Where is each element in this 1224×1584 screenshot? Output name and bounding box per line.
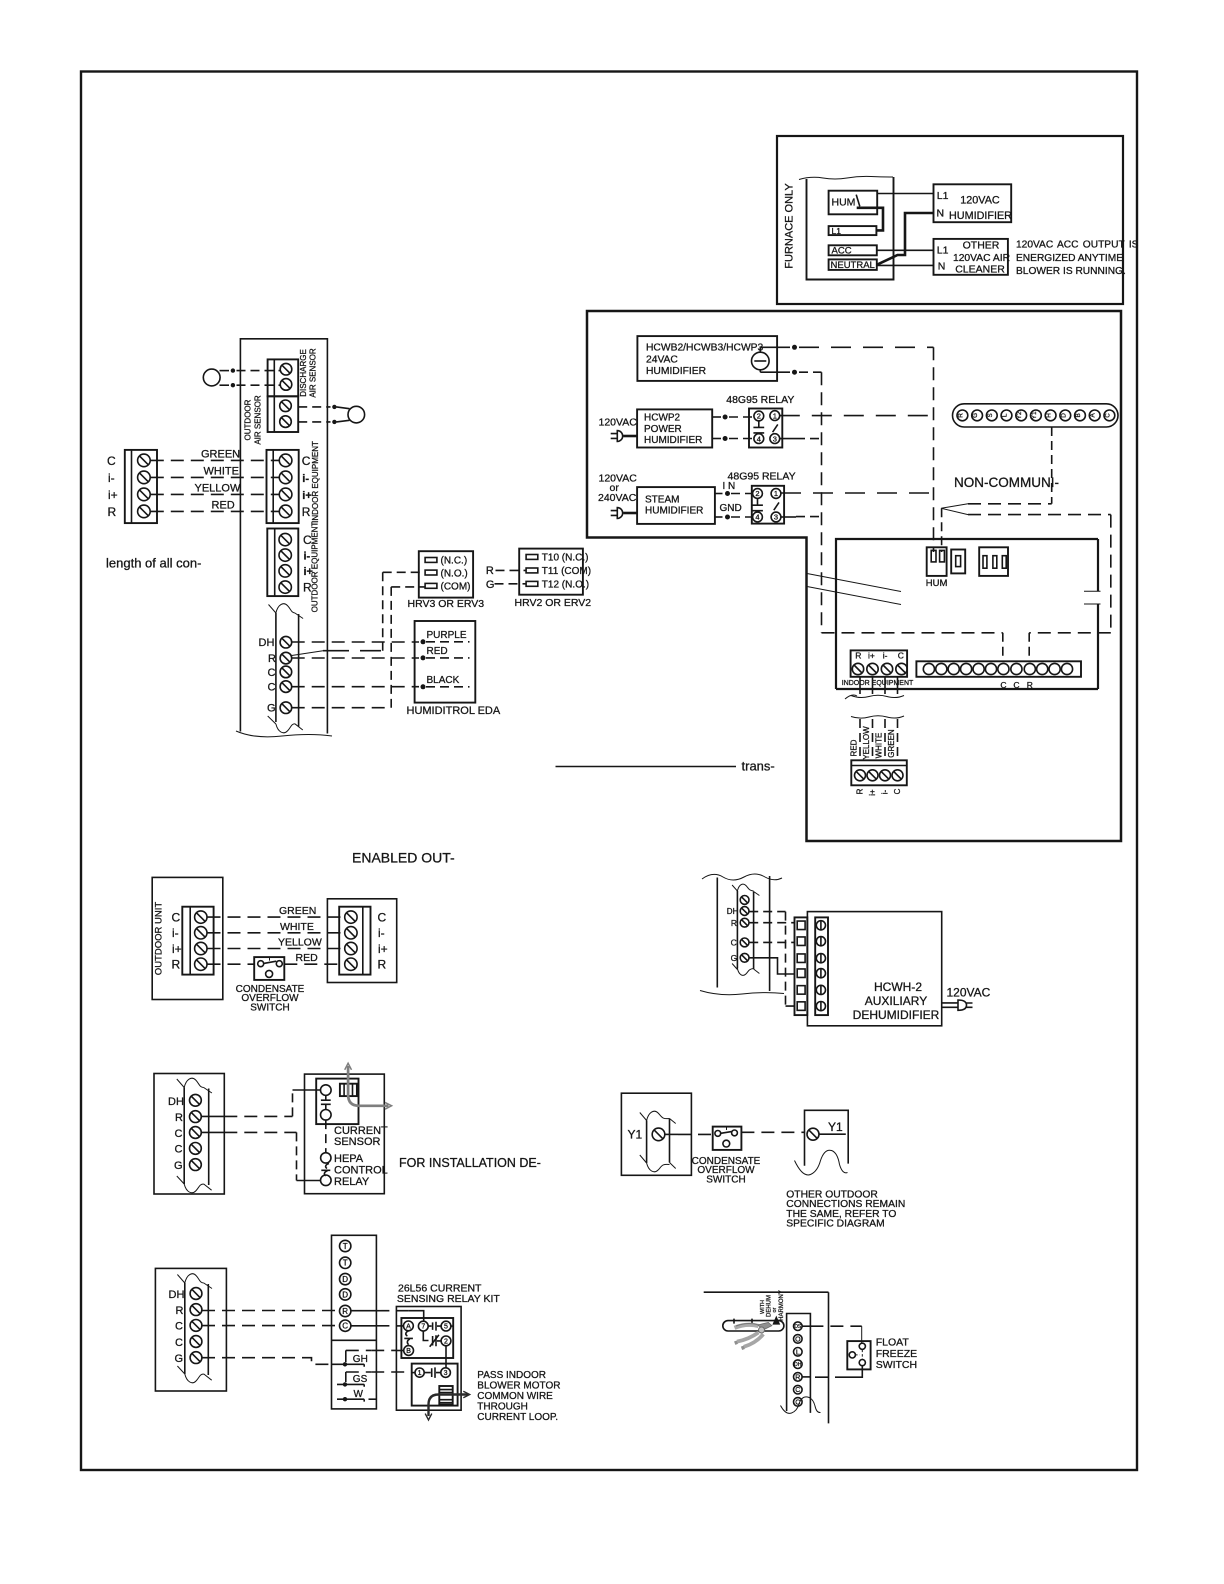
- svg-text:OUTDOOR EQUIPMENT: OUTDOOR EQUIPMENT: [311, 522, 320, 613]
- svg-text:C: C: [378, 910, 387, 924]
- svg-text:C: C: [302, 454, 311, 468]
- svg-text:GREEN: GREEN: [887, 729, 896, 758]
- Y1 unit box (torn bottom): [805, 1110, 849, 1165]
- strip circle 6: [985, 663, 996, 674]
- terminal D: [340, 1273, 351, 1284]
- svg-text:i+: i+: [868, 651, 875, 661]
- svg-text:L1: L1: [832, 226, 842, 236]
- screw G: [280, 702, 292, 714]
- phillips screw 3: [816, 954, 825, 963]
- torn band: [647, 1119, 670, 1164]
- terminal O: [794, 1335, 803, 1344]
- svg-text:C: C: [175, 1144, 183, 1156]
- screw i-: [138, 471, 151, 484]
- terminal T: [340, 1257, 351, 1268]
- wire K2 pin3 to bus B: [781, 516, 796, 518]
- wire R to socket 1: [749, 922, 795, 924]
- oval strip terminal Y2: [1016, 410, 1027, 421]
- svg-text:HUMIDITROL EDA: HUMIDITROL EDA: [407, 705, 501, 717]
- wire C to relay kit pin A: [202, 1325, 339, 1327]
- svg-text:WHITE: WHITE: [280, 921, 314, 933]
- wire into COM: [391, 586, 425, 588]
- hepa relay coil top: [321, 1153, 331, 1163]
- svg-text:C: C: [795, 1387, 800, 1394]
- screw R: [190, 1304, 202, 1316]
- terminal DS: [794, 1322, 803, 1331]
- svg-text:CONTROL: CONTROL: [334, 1164, 388, 1176]
- relay A-B squiggle: [404, 1331, 413, 1345]
- svg-text:CURRENT LOOP.: CURRENT LOOP.: [477, 1412, 558, 1423]
- Y1 outdoor box: [621, 1093, 691, 1175]
- HCWH-2 box: [807, 912, 941, 1026]
- screw: [280, 363, 292, 375]
- svg-text:48G95 RELAY: 48G95 RELAY: [728, 471, 796, 483]
- svg-text:GREEN: GREEN: [201, 449, 240, 461]
- furnace terminal panel (torn top): [807, 177, 894, 280]
- wire K1 pin1 to bus A: [780, 415, 934, 417]
- wire leader down to HUM plug: [941, 508, 943, 552]
- wire K1 pin3 to bus B: [780, 438, 796, 440]
- outdoor air sensor bulb: [348, 406, 365, 423]
- torn edge wavy line: [799, 176, 893, 179]
- svg-text:i+: i+: [378, 942, 388, 956]
- PURPLE node: [421, 639, 426, 644]
- relay K2 box: [752, 486, 784, 524]
- screw C: [279, 533, 291, 545]
- svg-text:T12 (N.O.): T12 (N.O.): [542, 580, 589, 591]
- svg-text:I N: I N: [723, 481, 736, 492]
- svg-text:(COM): (COM): [441, 582, 471, 593]
- svg-text:INDOOR EQUIPMENT: INDOOR EQUIPMENT: [311, 441, 320, 523]
- dashed bus A vertical: [933, 347, 935, 552]
- screw column: [815, 917, 828, 1015]
- svg-text:i-: i-: [378, 926, 385, 940]
- socket 4: [797, 969, 805, 978]
- wire K2 pin1 to bus A: [781, 492, 934, 494]
- relay squiggle: [321, 1164, 330, 1176]
- svg-text:C: C: [342, 1322, 348, 1331]
- svg-text:N: N: [938, 261, 946, 273]
- svg-text:HCWP2: HCWP2: [644, 413, 681, 424]
- sensor lead 1: [220, 370, 230, 372]
- oval strip terminal A: [1089, 410, 1100, 421]
- relay K1 coil symbol: [753, 421, 764, 434]
- wire L1 terminal to HUM switch (thick): [857, 208, 883, 231]
- wire WHITE: [208, 932, 345, 934]
- wire YELLOW: [208, 948, 345, 950]
- svg-text:24VAC: 24VAC: [646, 355, 678, 366]
- svg-text:Y1: Y1: [628, 1128, 643, 1142]
- svg-text:HUMIDIFIER: HUMIDIFIER: [644, 435, 702, 446]
- capacitor 1-3: [424, 1367, 441, 1378]
- svg-text:GH: GH: [353, 1354, 368, 1365]
- socket 3: [797, 954, 805, 963]
- oval thermostat terminal strip: [953, 404, 1119, 427]
- svg-text:AIR SENSOR: AIR SENSOR: [309, 348, 318, 398]
- svg-text:R: R: [795, 1374, 800, 1381]
- outdoor equipment 4-terminal block: [267, 529, 298, 597]
- svg-text:2: 2: [757, 412, 761, 421]
- steam humidifier box: [637, 487, 715, 524]
- svg-text:L1: L1: [937, 190, 949, 202]
- indoor equipment cable wires: [859, 677, 861, 694]
- screw G: [740, 953, 749, 962]
- wire GH to pin B: [371, 1349, 396, 1351]
- terminal L: [794, 1348, 803, 1357]
- screw i-: [279, 471, 292, 484]
- screw R: [852, 663, 863, 674]
- svg-text:C: C: [898, 651, 904, 661]
- wire RED: [859, 719, 861, 760]
- screw i-: [279, 549, 291, 561]
- svg-text:C: C: [1105, 413, 1111, 418]
- terminal C: [340, 1320, 351, 1331]
- wire steam GND to K2 pin4: [715, 516, 723, 518]
- svg-text:T: T: [343, 1242, 348, 1251]
- relay K1 pin 2: [754, 411, 764, 421]
- svg-text:2: 2: [444, 1338, 448, 1345]
- svg-text:i-: i-: [172, 926, 179, 940]
- svg-text:R: R: [957, 413, 964, 418]
- svg-text:W: W: [354, 1389, 364, 1400]
- svg-text:SENSING RELAY KIT: SENSING RELAY KIT: [397, 1293, 500, 1305]
- svg-text:ACC: ACC: [832, 246, 852, 257]
- svg-text:trans-: trans-: [742, 759, 775, 774]
- strip circle 7: [998, 663, 1009, 674]
- svg-text:D: D: [1060, 413, 1067, 418]
- wire YELLOW: [872, 719, 874, 760]
- terminal (N.C.): [425, 558, 437, 563]
- socket 2: [797, 937, 805, 946]
- strip circle 11: [1049, 663, 1060, 674]
- svg-text:WHITE: WHITE: [875, 733, 884, 759]
- svg-text:H: H: [1046, 413, 1053, 418]
- wire GS to pin 1: [371, 1371, 412, 1373]
- svg-text:R: R: [108, 505, 117, 519]
- phillips screw 2: [816, 937, 825, 946]
- band tear wavy bottom: [268, 716, 303, 733]
- svg-text:C: C: [1013, 680, 1019, 690]
- capacitor to pin 2 with slash: [433, 1335, 441, 1346]
- outdoor unit terminal block: [182, 907, 213, 975]
- svg-text:COMMON WIRE: COMMON WIRE: [477, 1391, 553, 1402]
- oval strip terminal L: [1001, 410, 1012, 421]
- svg-text:A: A: [1090, 413, 1097, 418]
- svg-text:C: C: [175, 1337, 183, 1349]
- relay K1 pin 1: [770, 411, 780, 421]
- svg-text:1: 1: [418, 1370, 422, 1377]
- svg-text:C: C: [268, 682, 276, 694]
- band tear bottom: [177, 1176, 212, 1193]
- svg-text:RED: RED: [212, 500, 235, 512]
- relay kit outer box: [396, 1307, 461, 1411]
- cable break diagonals at left: [807, 574, 901, 605]
- wire cutters (gray): [735, 1325, 759, 1328]
- screw (blank): [740, 896, 749, 905]
- hepa relay coil bottom: [321, 1175, 332, 1186]
- non-communicating section L-shaped box: [587, 311, 1121, 841]
- oval strip terminal D: [1060, 410, 1071, 421]
- svg-text:DH: DH: [169, 1289, 185, 1301]
- wire dashed to node B column: [799, 371, 822, 373]
- svg-text:R: R: [342, 1307, 348, 1316]
- svg-text:Y1: Y1: [1031, 411, 1038, 419]
- HRV3 box: [419, 551, 473, 597]
- svg-text:C: C: [175, 1128, 183, 1140]
- wire RED: [208, 963, 255, 965]
- wire leader to oval strip: [968, 503, 1052, 505]
- oval strip terminal C: [1104, 410, 1115, 421]
- screw R: [279, 505, 292, 518]
- current transformer CT2: [439, 1386, 452, 1405]
- wire steam IN to K2 pin2: [715, 493, 723, 495]
- svg-text:120VAC ACC OUTPUT IS: 120VAC ACC OUTPUT IS: [1016, 240, 1139, 251]
- svg-text:i-: i-: [304, 550, 311, 562]
- strip circle 2: [936, 663, 947, 674]
- strip circle 10: [1037, 663, 1048, 674]
- wire humidifier N to NEUTRAL (thick): [877, 213, 934, 265]
- wire C to BLACK: [292, 686, 419, 688]
- terminal GH: [346, 1349, 371, 1351]
- wire YELLOW: [151, 493, 280, 495]
- svg-text:DEHUM: DEHUM: [767, 1295, 773, 1317]
- terminal HUM: [829, 191, 878, 215]
- strip circle 9: [1024, 663, 1035, 674]
- svg-text:G: G: [486, 579, 495, 591]
- svg-text:C: C: [175, 1321, 183, 1333]
- DH strip box: [154, 1074, 224, 1195]
- torn thermostat band (HCWH-2): [717, 876, 769, 991]
- dashed bus B vertical: [821, 372, 823, 633]
- svg-text:120VAC: 120VAC: [960, 195, 1000, 207]
- svg-text:HEPA: HEPA: [334, 1153, 364, 1165]
- svg-text:240VAC: 240VAC: [598, 492, 637, 504]
- svg-text:DH: DH: [259, 637, 275, 649]
- screw i-: [880, 770, 891, 781]
- svg-text:R: R: [268, 653, 276, 665]
- oval strip terminal S: [986, 410, 997, 421]
- svg-text:or: or: [772, 1307, 778, 1312]
- screw i-: [345, 927, 357, 939]
- svg-text:R: R: [172, 958, 181, 972]
- terminal (N.O.): [425, 570, 437, 575]
- thermostat column (torn bottom): [787, 1314, 811, 1413]
- svg-text:PURPLE: PURPLE: [427, 630, 467, 641]
- svg-text:G: G: [267, 703, 276, 715]
- svg-text:C: C: [731, 938, 737, 948]
- wire G to socket 4: [749, 958, 795, 974]
- wire pin 2 down: [445, 1346, 447, 1368]
- svg-text:C: C: [1000, 680, 1006, 690]
- wire RED: [151, 510, 280, 512]
- screw R: [195, 958, 207, 970]
- relay K2 pin 4: [753, 512, 763, 522]
- svg-text:INDOOR EQUIPMENT: INDOOR EQUIPMENT: [842, 680, 914, 687]
- svg-text:D: D: [342, 1290, 348, 1299]
- svg-text:YELLOW: YELLOW: [195, 483, 241, 495]
- wire R to RED: [292, 657, 419, 659]
- svg-text:4: 4: [757, 434, 761, 443]
- svg-text:SWITCH: SWITCH: [876, 1359, 917, 1371]
- wire C to hepa relay: [201, 1131, 224, 1133]
- terminal band verticals: [276, 613, 299, 727]
- strip circle 1: [923, 663, 934, 674]
- wire 7 to capacitor 2: [423, 1331, 428, 1341]
- svg-text:PASS INDOOR: PASS INDOOR: [477, 1370, 546, 1381]
- svg-text:OTHER: OTHER: [963, 240, 1000, 252]
- cable tear wavy upper: [845, 695, 904, 699]
- svg-text:OUTDOOR UNIT: OUTDOOR UNIT: [154, 902, 165, 976]
- DS jumper loop: [723, 1321, 784, 1331]
- svg-text:3: 3: [773, 434, 777, 443]
- wire from oval strip H down: [1051, 427, 1053, 504]
- svg-text:DISCHARGE: DISCHARGE: [299, 349, 308, 397]
- screw R: [138, 505, 151, 518]
- svg-text:STEAM: STEAM: [645, 495, 679, 506]
- sensor lead 3: [298, 406, 330, 408]
- svg-text:O: O: [795, 1336, 801, 1343]
- terminal (COM): [425, 583, 437, 588]
- svg-text:RED: RED: [296, 952, 319, 964]
- svg-text:FLOAT: FLOAT: [876, 1337, 910, 1349]
- wire R tap to HRV3 NO riser: [323, 650, 381, 652]
- screw: [280, 379, 292, 391]
- screw DH: [190, 1094, 202, 1106]
- svg-text:RED: RED: [850, 739, 859, 756]
- screw G: [190, 1159, 202, 1171]
- svg-text:GS: GS: [353, 1374, 368, 1385]
- strip circle 5: [973, 663, 984, 674]
- svg-text:L: L: [796, 1349, 800, 1356]
- junction dot: [792, 370, 797, 375]
- svg-text:120VAC: 120VAC: [947, 985, 991, 999]
- HRV2 box: [519, 549, 583, 595]
- outdoor unit box: [152, 877, 223, 999]
- riser to HRV3 COM: [390, 587, 392, 708]
- strip band: [184, 1088, 209, 1186]
- svg-text:AIR SENSOR: AIR SENSOR: [254, 395, 263, 445]
- svg-text:HUM: HUM: [832, 197, 856, 209]
- svg-text:R: R: [302, 505, 311, 519]
- svg-text:S: S: [988, 413, 994, 417]
- wire leader to right bus: [968, 514, 1111, 516]
- single-slot connector: [951, 550, 965, 574]
- svg-text:i+: i+: [868, 789, 877, 796]
- oval strip terminal Y1: [1031, 410, 1042, 421]
- terminal DH: [794, 1360, 803, 1369]
- screw i+: [867, 770, 878, 781]
- svg-text:R: R: [176, 1305, 184, 1317]
- screw i-: [195, 927, 207, 939]
- svg-text:NEUTRAL: NEUTRAL: [831, 260, 875, 271]
- long terminal strip: [916, 661, 1081, 677]
- svg-text:CURRENT: CURRENT: [334, 1125, 388, 1137]
- screw C: [190, 1143, 202, 1155]
- plug symbol 240VAC: [611, 511, 618, 516]
- current sensor sub-box: [316, 1079, 358, 1125]
- screw: [280, 416, 292, 428]
- screw C: [279, 454, 292, 467]
- screw C: [190, 1336, 202, 1348]
- svg-text:HUMIDIFIER: HUMIDIFIER: [949, 210, 1012, 222]
- outdoor air sensor block: [268, 396, 299, 432]
- partial box outline: [704, 1292, 829, 1423]
- RED node: [421, 655, 426, 660]
- socket column: [795, 917, 808, 1015]
- terminal W: [343, 1397, 347, 1401]
- wire dashed to node A column: [799, 346, 934, 348]
- svg-text:i+: i+: [108, 488, 118, 502]
- svg-text:R: R: [486, 565, 494, 577]
- wire C to socket 2: [749, 941, 795, 943]
- svg-text:YELLOW: YELLOW: [862, 726, 871, 760]
- svg-text:ENERGIZED ANYTIME: ENERGIZED ANYTIME: [1016, 253, 1123, 264]
- R tap lead: [292, 651, 323, 656]
- svg-text:DS: DS: [794, 1324, 802, 1330]
- svg-text:C: C: [172, 910, 181, 924]
- wire R to relay kit pin7: [202, 1310, 339, 1312]
- screw C: [280, 681, 292, 693]
- screw R: [855, 770, 866, 781]
- svg-text:T: T: [343, 1259, 348, 1268]
- screw R: [190, 1111, 202, 1123]
- DH strip box bottom-left: [155, 1268, 226, 1391]
- band tear bottom: [640, 1155, 676, 1172]
- band tear top: [177, 1078, 212, 1093]
- screw i+: [345, 942, 357, 954]
- svg-text:HUMIDIFIER: HUMIDIFIER: [646, 366, 706, 377]
- svg-text:i-: i-: [883, 651, 888, 661]
- oval strip terminal R: [957, 410, 968, 421]
- screw R: [740, 918, 749, 927]
- svg-text:HCWH-2: HCWH-2: [874, 980, 922, 994]
- wire DS to float switch: [802, 1325, 810, 1327]
- svg-text:GREEN: GREEN: [279, 905, 316, 917]
- screw DH: [190, 1288, 202, 1300]
- svg-text:4: 4: [755, 513, 759, 522]
- terminal T12: [526, 581, 538, 586]
- left 4-terminal block: [125, 450, 157, 523]
- tall box tear wavy: [236, 731, 332, 737]
- sensor coil terminal: [321, 1085, 332, 1096]
- capacitor 7-5: [428, 1322, 441, 1331]
- svg-text:HRV2 OR ERV2: HRV2 OR ERV2: [515, 597, 592, 609]
- blower common wire through CT2: [429, 1395, 469, 1417]
- svg-text:G: G: [731, 953, 738, 963]
- band tear top: [640, 1111, 676, 1123]
- wire R to current sensor: [201, 1115, 224, 1117]
- terminal T: [340, 1240, 351, 1251]
- terminal C: [794, 1385, 803, 1394]
- svg-text:BLOWER IS RUNNING.: BLOWER IS RUNNING.: [1016, 266, 1126, 277]
- svg-text:T11 (COM): T11 (COM): [542, 566, 591, 577]
- svg-text:L: L: [1002, 413, 1009, 417]
- svg-text:i-: i-: [302, 473, 309, 485]
- svg-text:HCWB2/HCWB3/HCWP3: HCWB2/HCWB3/HCWP3: [646, 343, 764, 354]
- blower wire through CT (gray): [348, 1066, 388, 1106]
- svg-text:120VAC: 120VAC: [599, 417, 638, 429]
- wire HUM to humidifier L1: [877, 193, 933, 195]
- svg-text:AUXILIARY: AUXILIARY: [865, 994, 927, 1008]
- terminal R: [340, 1305, 351, 1316]
- svg-text:FOR INSTALLATION DE-: FOR INSTALLATION DE-: [399, 1156, 541, 1170]
- thermostat tall box (torn bottom): [240, 339, 327, 734]
- junction dot: [792, 345, 797, 350]
- wire float switch to R: [848, 1366, 862, 1378]
- pin 5: [441, 1321, 451, 1331]
- pin 3: [441, 1368, 451, 1378]
- wire through Y1: [819, 1133, 846, 1135]
